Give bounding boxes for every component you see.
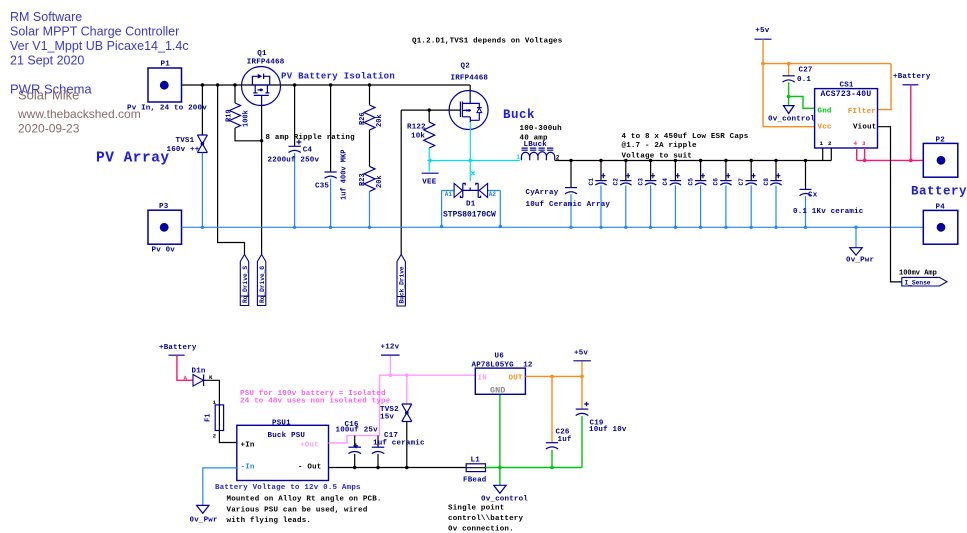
svg-text:21 Sept 2020: 21 Sept 2020 [10, 54, 84, 68]
svg-text:Q1: Q1 [257, 50, 267, 58]
power symbol +5v (top) [755, 27, 772, 39]
ground 0v_control (top) [768, 106, 815, 124]
svg-text:+5v: +5v [755, 27, 769, 35]
power symbol +Battery (bottom) [159, 344, 197, 355]
netflag I_Sense [899, 270, 947, 287]
netflag Buck_Drive [397, 255, 406, 307]
ground 0v_Pwr (right) [846, 227, 874, 264]
svg-text:@1.7 - 2A ripple: @1.7 - 2A ripple [622, 142, 698, 150]
svg-text:0v connection.: 0v connection. [448, 526, 514, 533]
ic U6 AP78L05YG [472, 353, 533, 396]
capacitor C16 100uf 25v [336, 421, 379, 468]
wire: Q1 gate to Rq_Drive_G [261, 105, 263, 254]
svg-text:Ver V1_Mppt UB Picaxe14_1.4c: Ver V1_Mppt UB Picaxe14_1.4c [10, 39, 189, 53]
svg-text:U6: U6 [495, 353, 505, 361]
wire: orange 5v net [763, 39, 891, 127]
svg-text:100k: 100k [243, 110, 251, 127]
wire: -In to 0v_Pwr blue [203, 468, 237, 506]
svg-text:10k: 10k [411, 133, 425, 141]
svg-text:+Out: +Out [300, 442, 319, 450]
svg-text:- Out: - Out [298, 464, 322, 472]
wire: diode to fuse [204, 380, 220, 405]
svg-text:A2: A2 [489, 191, 497, 198]
svg-text:PV Battery Isolation: PV Battery Isolation [281, 72, 395, 82]
svg-text:0v_Pwr: 0v_Pwr [846, 257, 874, 265]
connector P2 [923, 137, 958, 178]
svg-text:+In: +In [241, 442, 255, 450]
svg-text:+Battery: +Battery [159, 344, 197, 352]
svg-text:C27: C27 [799, 67, 813, 75]
svg-text:0.1: 0.1 [797, 76, 811, 84]
svg-text:10uf 10v: 10uf 10v [589, 426, 627, 434]
svg-text:GND: GND [490, 386, 505, 396]
svg-text:P3: P3 [159, 203, 169, 211]
svg-text:Voltage to suit: Voltage to suit [622, 153, 693, 161]
wire: top PV rail [182, 85, 471, 92]
wire: Q2 gate line [401, 110, 460, 254]
svg-text:D1n: D1n [192, 368, 206, 376]
svg-text:Buck PSU: Buck PSU [268, 432, 306, 440]
svg-text:AP78L05YG 12: AP78L05YG 12 [472, 362, 533, 370]
svg-text:100mv Amp: 100mv Amp [899, 270, 937, 278]
svg-text:OUT: OUT [509, 375, 523, 383]
connector P3 [148, 203, 182, 255]
svg-text:PSU1: PSU1 [272, 419, 291, 427]
svg-text:Mounted on Alloy Rt angle on P: Mounted on Alloy Rt angle on PCB. [227, 496, 382, 504]
svg-text:4 to 8 x 450uf Low ESR Caps: 4 to 8 x 450uf Low ESR Caps [622, 133, 749, 141]
svg-text:FBead: FBead [463, 477, 487, 485]
capacitor C7 (bank 450uf) [738, 161, 757, 228]
svg-text:2: 2 [213, 433, 216, 440]
wire: green gnd net [789, 82, 815, 108]
svg-text:24 to 48v uses non isolated ty: 24 to 48v uses non isolated type [240, 398, 391, 406]
svg-text:Vcc: Vcc [818, 124, 832, 132]
svg-text:RM Software: RM Software [10, 10, 82, 24]
svg-text:ACS723-40U: ACS723-40U [821, 90, 872, 99]
svg-text:100uf 25v: 100uf 25v [336, 427, 379, 435]
svg-text:IRFP4468: IRFP4468 [247, 59, 285, 67]
tvs TVS2 15v [380, 404, 412, 422]
svg-text:with flying leads.: with flying leads. [227, 517, 312, 525]
wire: +Battery magenta net [857, 85, 924, 161]
svg-text:0v_control: 0v_control [768, 116, 815, 124]
svg-text:D1: D1 [466, 201, 476, 209]
ic PSU1 Buck PSU [237, 419, 329, 480]
svg-text:IN: IN [478, 375, 487, 383]
svg-text:C3: C3 [637, 178, 644, 186]
svg-text:1uf 400v MKP: 1uf 400v MKP [341, 150, 349, 200]
svg-text:1uf: 1uf [558, 436, 572, 444]
svg-text:1uf ceramic: 1uf ceramic [373, 440, 425, 448]
wire: PSU 0v rail [329, 467, 467, 469]
capacitor C1 (bank 450uf) [588, 161, 607, 228]
svg-text:0.1 1Kv ceramic: 0.1 1Kv ceramic [793, 208, 864, 216]
svg-text:VEE: VEE [422, 179, 436, 187]
capacitor C35 1uf 400v MKP [315, 85, 349, 227]
svg-text:2020-09-23: 2020-09-23 [18, 122, 80, 136]
svg-text:P1: P1 [161, 61, 171, 69]
netflag Rq_Drive_G [257, 255, 266, 306]
svg-text:LBuck: LBuck [524, 141, 548, 149]
wire: orange 5v out net [525, 361, 582, 443]
svg-text:Buck: Buck [503, 108, 535, 122]
ground 0v_control (bottom) [481, 485, 528, 503]
svg-text:0v_Pwr: 0v_Pwr [190, 517, 218, 525]
svg-text:F1: F1 [205, 414, 213, 422]
power symbol +Battery (right) [893, 73, 931, 85]
node: 0v rail dots [201, 226, 858, 229]
svg-text:L1: L1 [471, 457, 481, 465]
svg-text:15v: 15v [380, 414, 394, 422]
svg-text:R122: R122 [407, 124, 426, 132]
svg-text:Battery Voltage to 12v 0.5 Amp: Battery Voltage to 12v 0.5 Amps [215, 484, 361, 492]
svg-text:C8: C8 [763, 178, 770, 186]
capacitor C6 (bank 450uf) [713, 161, 732, 228]
svg-text:CS1: CS1 [840, 82, 854, 90]
pin: CS1 bottom pins [823, 148, 832, 161]
wire: Rq_Drive_S source line [218, 85, 245, 255]
svg-text:20k: 20k [376, 114, 384, 127]
resistor R23 20k [359, 166, 384, 227]
svg-text:20k: 20k [376, 175, 384, 188]
svg-text:Single point: Single point [448, 505, 504, 513]
svg-text:0v_control: 0v_control [481, 496, 528, 504]
svg-text:Pv 0v: Pv 0v [152, 247, 176, 255]
svg-text:Various PSU can be used, wired: Various PSU can be used, wired [227, 507, 368, 515]
svg-text:R23: R23 [359, 173, 367, 186]
svg-text:Solar MPPT Charge Controller: Solar MPPT Charge Controller [10, 25, 179, 39]
ic CS1 ACS723-40U [815, 82, 878, 149]
svg-text:+5v: +5v [574, 350, 588, 358]
connector P1 [127, 61, 207, 113]
capacitor C2 (bank 450uf) [613, 161, 632, 228]
connector P4 [923, 204, 958, 245]
capacitor C27 0.1 [783, 67, 813, 85]
power symbol +12v [381, 344, 400, 356]
power symbol VEE [422, 173, 439, 186]
svg-text:R26: R26 [359, 112, 367, 125]
capacitor C4 2200uf 250v [268, 85, 320, 227]
node: output rail dots [569, 159, 572, 162]
svg-text:1: 1 [820, 140, 824, 147]
wire: green control 0v net [486, 394, 583, 485]
capacitor C4 (bank 450uf) [662, 161, 681, 228]
svg-text:Gnd: Gnd [818, 108, 832, 116]
svg-text:1: 1 [516, 154, 520, 161]
svg-text:C7: C7 [738, 178, 745, 186]
svg-text:4: 4 [854, 140, 858, 147]
svg-text:Cx: Cx [808, 192, 818, 200]
svg-text:C4: C4 [303, 147, 313, 155]
svg-text:Solar Mike: Solar Mike [18, 88, 79, 103]
wire: Q2 source cyan [469, 122, 471, 181]
svg-text:2200uf 250v: 2200uf 250v [268, 157, 320, 165]
capacitor C5 (bank 450uf) [687, 161, 706, 228]
svg-text:CyArray: CyArray [526, 189, 559, 197]
svg-text:10uf Ceramic Array: 10uf Ceramic Array [526, 201, 611, 209]
svg-text:Buck_Drive: Buck_Drive [399, 266, 406, 303]
svg-text:Rq_Drive_G: Rq_Drive_G [259, 266, 266, 303]
svg-text:IRFP4468: IRFP4468 [451, 74, 489, 82]
svg-text:STPS80170CW: STPS80170CW [443, 211, 496, 220]
inductor LBuck [516, 125, 562, 162]
svg-text:P2: P2 [936, 137, 946, 145]
svg-text:I_Sense: I_Sense [905, 280, 931, 287]
svg-text:3: 3 [862, 140, 866, 147]
svg-text:C4: C4 [662, 178, 669, 186]
wire: battery feed magenta [177, 355, 193, 380]
svg-text:Q2: Q2 [461, 63, 471, 71]
wire: TVS1 to 0v rail blue [201, 153, 203, 228]
resistor R19 [226, 85, 262, 141]
wire: Viout sense line [878, 127, 902, 282]
svg-text:2: 2 [828, 140, 832, 147]
wire: +Out pink 12v net [329, 355, 476, 443]
svg-text:Rq_Drive_S: Rq_Drive_S [242, 266, 249, 303]
svg-text:Battery: Battery [911, 185, 967, 199]
svg-text:-In: -In [241, 464, 255, 472]
svg-text:C6: C6 [713, 178, 720, 186]
power symbol +5v (bottom) [573, 350, 591, 361]
resistor R26 20k [359, 85, 384, 130]
svg-text:C35: C35 [315, 183, 329, 191]
capacitor C8 (bank 450uf) [763, 161, 782, 228]
capacitor C3 (bank 450uf) [637, 161, 656, 228]
capacitor CyArray 10uf ceramic [526, 161, 611, 228]
wire: VEE cyan net [429, 148, 520, 172]
svg-text:160v ++: 160v ++ [167, 146, 200, 154]
wire: TVS1 drop black [201, 85, 203, 135]
wire: 0v blue rail [182, 226, 924, 228]
svg-text:P4: P4 [936, 204, 946, 212]
svg-text:www.thebackshed.com: www.thebackshed.com [17, 107, 141, 121]
capacitor C19 10uf 10v [576, 402, 627, 434]
svg-text:8 amp Ripple rating: 8 amp Ripple rating [266, 134, 356, 142]
svg-text:+Battery: +Battery [893, 73, 931, 81]
capacitor C17 1uf ceramic [372, 432, 425, 468]
resistor R122 10k [407, 110, 435, 148]
svg-text:TVS1: TVS1 [176, 137, 195, 145]
wire: output rail [555, 160, 832, 162]
transistor Q2 IRFP4468 [449, 63, 488, 130]
svg-text:+12v: +12v [381, 344, 400, 352]
node: cyan x mark [471, 172, 474, 175]
ground 0v_Pwr (bottom) [190, 505, 218, 524]
svg-text:control\\battery: control\\battery [448, 515, 524, 523]
netflag Rq_Drive_S [240, 255, 249, 306]
svg-text:C2: C2 [613, 178, 620, 186]
svg-text:C1: C1 [588, 178, 595, 186]
svg-text:100-300uh: 100-300uh [520, 125, 563, 133]
svg-text:C5: C5 [687, 178, 694, 186]
svg-text:FIlter: FIlter [848, 108, 876, 116]
svg-text:A1: A1 [445, 191, 453, 198]
svg-text:R19: R19 [226, 109, 234, 122]
transistor Q1 IRFP4468 [242, 50, 285, 106]
inductor L1 FBead [463, 457, 487, 485]
svg-text:PV Array: PV Array [96, 151, 170, 167]
svg-text:Q1.2.D1,TVS1 depends on Voltag: Q1.2.D1,TVS1 depends on Voltages [412, 38, 563, 46]
node: gate junction [260, 139, 263, 142]
node: rail junction dots [201, 83, 204, 86]
svg-text:Viout: Viout [853, 124, 877, 132]
svg-text:A: A [184, 375, 188, 382]
capacitor C26 1uf [546, 429, 572, 450]
wire: fuse to PSU [219, 431, 236, 443]
svg-text:Pv In, 24 to 200v: Pv In, 24 to 200v [127, 105, 207, 113]
capacitor Cx 0.1 1Kv ceramic [793, 161, 864, 228]
wire: R26-R23 link [369, 130, 371, 166]
fuse F1 [205, 399, 224, 440]
diode D1 STPS80170CW [442, 183, 501, 226]
tvs TVS1 [167, 135, 208, 154]
diode D1n [192, 368, 214, 387]
